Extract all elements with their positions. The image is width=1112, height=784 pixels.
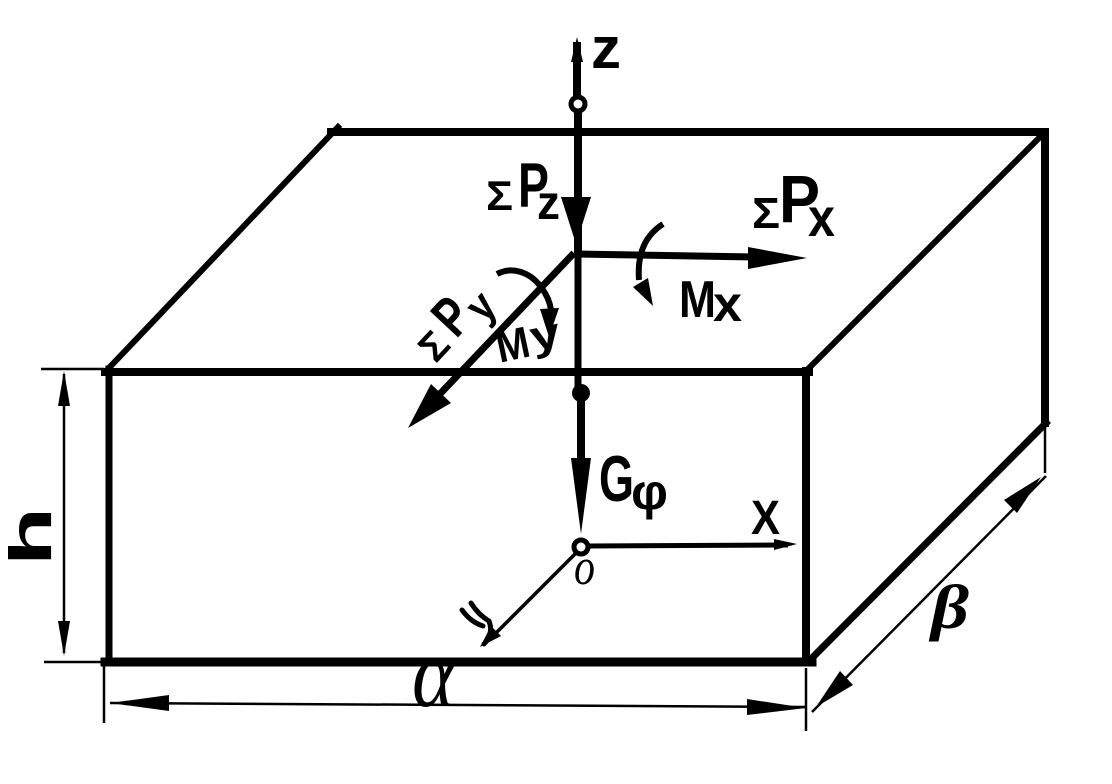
svg-text:α: α: [412, 620, 456, 727]
svg-text:z: z: [537, 177, 560, 230]
svg-text:h: h: [0, 507, 64, 566]
svg-text:X: X: [751, 492, 780, 545]
svg-text:G: G: [599, 442, 634, 515]
svg-text:Σ: Σ: [752, 189, 780, 238]
svg-text:x: x: [713, 276, 742, 332]
svg-text:φ: φ: [631, 464, 668, 520]
svg-text:β: β: [929, 574, 970, 642]
svg-text:z: z: [591, 16, 621, 81]
svg-text:Σ: Σ: [486, 172, 513, 219]
svg-text:o: o: [574, 539, 595, 596]
svg-text:M: M: [679, 271, 716, 329]
svg-text:x: x: [808, 188, 835, 248]
